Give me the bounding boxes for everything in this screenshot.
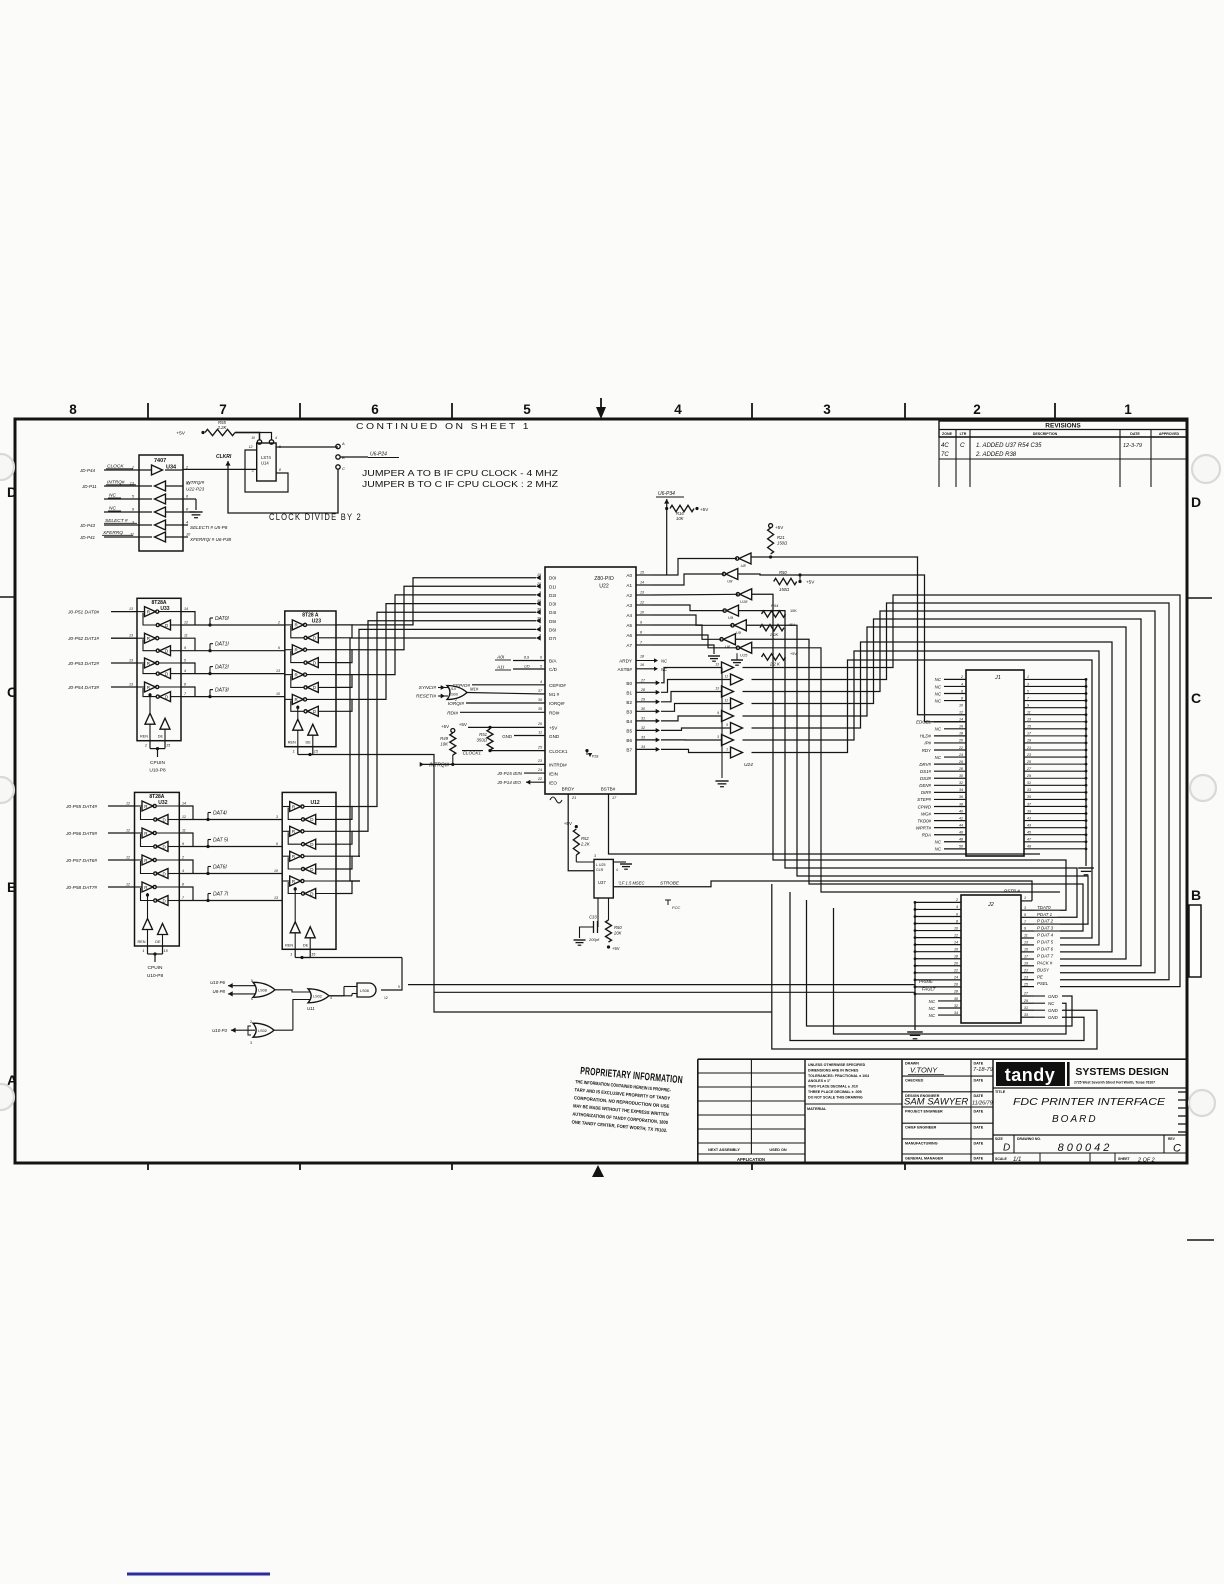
svg-text:8: 8 (640, 631, 642, 635)
svg-text:9: 9 (717, 711, 719, 715)
svg-text:27: 27 (640, 678, 646, 682)
svg-text:BUSY: BUSY (1037, 967, 1050, 972)
svg-text:P DAT 2: P DAT 2 (1037, 919, 1054, 924)
svg-text:DE: DE (303, 943, 309, 947)
zone marker bar right edge (1189, 905, 1201, 977)
svg-text:C: C (342, 466, 345, 471)
U33 channel 1 driver (145, 633, 156, 643)
svg-text:3: 3 (1024, 906, 1026, 910)
U23 channel 1 internal wires (285, 649, 293, 651)
jumper pad B (336, 455, 340, 459)
U32 channel 2 receiver (157, 869, 168, 879)
U23 channel 2 receiver (307, 682, 318, 692)
resistor R57 2.2K (760, 625, 784, 631)
svg-text:24: 24 (537, 768, 542, 772)
wire bundle below J2 loops (772, 884, 1097, 1049)
svg-text:CPUIN: CPUIN (150, 760, 165, 766)
svg-text:TDAT0: TDAT0 (1037, 905, 1051, 910)
svg-text:P DAT 7: P DAT 7 (1037, 954, 1054, 959)
svg-text:P DAT 5: P DAT 5 (1037, 940, 1054, 945)
wire bundle D0I-D7I risers (360, 578, 536, 625)
svg-text:GND: GND (1048, 1008, 1059, 1013)
svg-text:6: 6 (371, 402, 379, 417)
svg-text:39: 39 (537, 616, 541, 620)
svg-text:17: 17 (1024, 955, 1029, 959)
svg-text:U22-P23: U22-P23 (186, 487, 205, 492)
U33 enable drivers (145, 713, 155, 724)
svg-text:6: 6 (251, 997, 253, 1001)
svg-text:GND: GND (502, 734, 512, 739)
resistor R54 2.2K (762, 611, 786, 617)
svg-text:2.2 K: 2.2 K (769, 662, 780, 667)
svg-text:4: 4 (184, 669, 186, 673)
inverter U6 (5) (723, 634, 735, 645)
U12 enable drivers (290, 922, 300, 933)
ground inverter bank (731, 659, 743, 661)
svg-text:DAT 7I: DAT 7I (213, 892, 229, 898)
svg-text:5: 5 (184, 659, 186, 663)
svg-text:7: 7 (182, 896, 185, 900)
U33 channel 3 receiver (160, 692, 171, 702)
hole punches (0, 454, 14, 480)
svg-text:JD-P11: JD-P11 (81, 484, 97, 489)
jumper C return loop to CLKRI (228, 469, 338, 513)
svg-text:D: D (310, 891, 314, 896)
U12 channel 1 internal wires (282, 830, 290, 832)
svg-text:13: 13 (129, 659, 133, 663)
svg-text:U33: U33 (160, 606, 169, 612)
svg-text:8: 8 (956, 919, 958, 923)
tolerance notes block (901, 1059, 903, 1163)
svg-text:14: 14 (182, 802, 186, 806)
svg-text:29: 29 (1023, 999, 1028, 1003)
svg-text:CLOCK1: CLOCK1 (463, 751, 482, 756)
svg-text:ARDY: ARDY (619, 659, 632, 664)
svg-text:21: 21 (571, 796, 576, 800)
U32 channel 0 driver (142, 801, 153, 811)
svg-text:14: 14 (954, 940, 958, 944)
wire inverter U8b output to J1 pin 12 (738, 574, 966, 722)
svg-text:12: 12 (954, 933, 958, 937)
svg-text:IEIN: IEIN (549, 772, 558, 777)
svg-text:15: 15 (1027, 725, 1031, 729)
svg-text:JD-P41: JD-P41 (79, 535, 96, 540)
svg-text:45: 45 (1027, 831, 1031, 835)
svg-text:7: 7 (1027, 696, 1030, 700)
U12 channel 3 driver (290, 876, 301, 886)
wire U14 Q to jumper A (276, 446, 338, 448)
title block outline (697, 1059, 699, 1163)
svg-text:26: 26 (953, 983, 958, 987)
svg-text:4: 4 (330, 996, 332, 1000)
svg-text:NC: NC (935, 677, 942, 682)
svg-text:12: 12 (182, 815, 186, 819)
svg-text:J0-P15 IEIN: J0-P15 IEIN (496, 771, 522, 776)
svg-text:UNLESS OTHERWISE SPECIFIED: UNLESS OTHERWISE SPECIFIED (808, 1063, 866, 1067)
svg-text:9: 9 (1024, 927, 1026, 931)
svg-text:BOARD: BOARD (1052, 1114, 1098, 1125)
svg-text:SHEET: SHEET (1118, 1157, 1131, 1161)
svg-text:APPLICATION: APPLICATION (737, 1157, 765, 1162)
J1 ground bus (1085, 679, 1087, 866)
svg-text:U10-P8: U10-P8 (147, 973, 164, 979)
svg-text:C: C (1191, 690, 1201, 706)
svg-text:350Ω: 350Ω (477, 738, 488, 743)
svg-text:R49: R49 (440, 736, 448, 741)
svg-text:DAT6I: DAT6I (213, 865, 227, 871)
svg-text:9: 9 (132, 508, 135, 512)
U32 CPUIN enable net (153, 952, 156, 955)
wire R55 to jumper A (235, 433, 260, 441)
svg-text:1: 1 (1024, 896, 1026, 900)
svg-text:28: 28 (958, 767, 963, 771)
svg-text:D1I: D1I (549, 584, 556, 589)
wire spare riser (753, 648, 1061, 892)
svg-text:P28: P28 (592, 755, 598, 759)
svg-text:D: D (163, 817, 167, 822)
svg-text:U8-P8: U8-P8 (213, 989, 226, 994)
personnel signature block (970, 1059, 972, 1163)
svg-text:FCC: FCC (672, 905, 680, 910)
svg-text:2: 2 (277, 621, 280, 625)
svg-text:CLOCK1: CLOCK1 (549, 749, 568, 754)
svg-text:IEO: IEO (549, 781, 557, 786)
svg-text:APPROVED: APPROVED (1159, 432, 1180, 436)
U23 enable wire to right (308, 753, 311, 756)
svg-text:NC: NC (935, 691, 942, 696)
gate U10 LS00 M1 or (447, 686, 467, 700)
svg-text:NEXT ASSEMBLY: NEXT ASSEMBLY (708, 1148, 740, 1152)
svg-text:IORQI#: IORQI# (549, 701, 565, 706)
svg-text:9: 9 (184, 646, 186, 650)
svg-text:A0: A0 (626, 573, 632, 578)
U23 channel 2 internal wires (285, 674, 293, 676)
svg-text:REV: REV (1168, 1137, 1176, 1141)
zone boundary ticks left edge (0, 596, 15, 598)
svg-text:CLR: CLR (596, 868, 604, 872)
U12 channel 3 internal wires (282, 880, 290, 882)
svg-text:1: 1 (145, 744, 147, 748)
buffer U34C (155, 494, 166, 504)
buffer U34D (155, 507, 166, 517)
inverter U15 (6) (740, 642, 752, 653)
svg-text:32: 32 (641, 726, 645, 730)
svg-text:DATE: DATE (1130, 432, 1140, 436)
svg-text:U14: U14 (261, 461, 269, 466)
svg-text:M1#: M1# (470, 687, 479, 692)
svg-text:5: 5 (523, 402, 531, 417)
svg-text:R51: R51 (479, 732, 487, 737)
U32 channel 3 internal wires (135, 886, 143, 888)
svg-text:D: D (310, 867, 314, 872)
svg-text:3: 3 (132, 521, 135, 525)
svg-text:7-18-79: 7-18-79 (973, 1067, 994, 1073)
svg-text:34: 34 (954, 1011, 958, 1015)
svg-text:FAULT: FAULT (922, 987, 936, 992)
svg-text:2: 2 (960, 675, 963, 679)
svg-text:3: 3 (276, 815, 278, 819)
zone tick marks bottom edge (147, 1163, 149, 1170)
svg-text:+5V: +5V (612, 946, 620, 951)
wire jumper B to U6-P24 (340, 456, 368, 458)
svg-text:J0-P58 DAT7#: J0-P58 DAT7# (65, 885, 97, 891)
U23 channel 0 receiver (307, 633, 318, 643)
svg-text:24: 24 (953, 976, 958, 980)
U23 channel 0 internal wires (285, 624, 293, 626)
svg-text:C: C (960, 442, 965, 449)
svg-text:DAT0I: DAT0I (215, 616, 229, 622)
svg-text:14: 14 (184, 607, 188, 611)
svg-text:13: 13 (276, 669, 280, 673)
svg-text:NC: NC (935, 698, 942, 703)
svg-text:8: 8 (69, 402, 77, 417)
svg-text:8: 8 (186, 508, 189, 512)
IC 8T28 U33 (137, 598, 181, 740)
svg-text:D: D (1191, 494, 1201, 510)
svg-text:PE: PE (1037, 974, 1043, 979)
svg-text:+5V: +5V (775, 525, 784, 530)
svg-text:12: 12 (384, 996, 388, 1000)
gate output riser to U12 enable (381, 958, 402, 991)
svg-text:11/26/79: 11/26/79 (972, 1101, 993, 1107)
svg-text:C/D: C/D (549, 667, 558, 672)
svg-text:5: 5 (1027, 689, 1029, 693)
svg-text:REVISIONS: REVISIONS (1045, 423, 1081, 430)
svg-text:10: 10 (640, 611, 644, 615)
svg-text:NC: NC (929, 999, 936, 1004)
resistor R53 2.2K (762, 654, 786, 660)
svg-text:17: 17 (1027, 732, 1032, 736)
A0-A7 staircase to inverters (652, 559, 737, 576)
svg-text:23: 23 (1026, 753, 1031, 757)
svg-text:DRAWING NO.: DRAWING NO. (1017, 1137, 1041, 1141)
svg-text:U22: U22 (599, 584, 609, 590)
svg-text:5: 5 (132, 495, 135, 499)
buffer U24 (6) (722, 735, 734, 746)
svg-text:P DAT 6: P DAT 6 (1037, 947, 1054, 952)
svg-text:L U25: L U25 (596, 863, 605, 867)
svg-text:DO NOT SCALE THIS DRAWING: DO NOT SCALE THIS DRAWING (808, 1095, 863, 1099)
svg-text:22: 22 (953, 969, 958, 973)
U33 channel 3 driver (145, 682, 156, 692)
svg-text:INTRDI#: INTRDI# (549, 763, 567, 768)
wire BRDY to U37 (568, 794, 594, 871)
zone tick marks top edge (147, 403, 149, 419)
svg-text:U10-P3: U10-P3 (212, 1028, 227, 1033)
svg-text:34: 34 (959, 788, 963, 792)
svg-text:30: 30 (959, 774, 963, 778)
svg-text:1. ADDED U37 R54 C35: 1. ADDED U37 R54 C35 (976, 443, 1042, 449)
svg-text:D: D (7, 484, 17, 500)
svg-text:29: 29 (640, 697, 645, 701)
svg-text:36: 36 (959, 795, 963, 799)
svg-text:REN: REN (137, 940, 145, 944)
U32 channel 1 internal wires (135, 832, 143, 834)
svg-text:46: 46 (959, 831, 963, 835)
svg-text:P DAT 3: P DAT 3 (1037, 926, 1054, 931)
svg-text:21: 21 (1023, 968, 1028, 972)
buffer U24 (7) (731, 747, 743, 758)
svg-text:32: 32 (954, 1004, 958, 1008)
U14 feedback loop (245, 450, 288, 492)
svg-text:4: 4 (956, 905, 958, 909)
wire U23 enable run to lower right (310, 755, 772, 1013)
svg-text:J0-P56 DAT5#: J0-P56 DAT5# (65, 831, 97, 837)
svg-text:CPWD: CPWD (918, 804, 932, 809)
svg-text:10: 10 (954, 926, 958, 930)
svg-text:DATE: DATE (974, 1126, 984, 1130)
svg-text:49: 49 (1027, 845, 1031, 849)
svg-text:35: 35 (538, 707, 542, 711)
svg-text:2: 2 (250, 1020, 252, 1024)
svg-text:13: 13 (1027, 718, 1031, 722)
svg-text:A2: A2 (626, 593, 632, 598)
svg-text:U23: U23 (312, 619, 321, 625)
svg-text:4C: 4C (941, 443, 949, 449)
U12 channel 0 receiver (305, 814, 316, 824)
svg-text:2: 2 (973, 402, 981, 417)
capacitor C33 (597, 898, 599, 927)
svg-text:DATE: DATE (974, 1109, 984, 1113)
svg-text:4: 4 (182, 869, 184, 873)
svg-text:11: 11 (1024, 934, 1028, 938)
svg-text:U11: U11 (307, 1006, 315, 1011)
svg-text:9: 9 (640, 621, 642, 625)
svg-text:13: 13 (640, 591, 644, 595)
U23 channel 3 driver (292, 694, 303, 704)
zone boundary ticks right edge (1187, 597, 1212, 599)
svg-text:SYNCI#: SYNCI# (419, 685, 437, 691)
inverter U8 (0) (739, 553, 751, 564)
jumper pads above U14 (257, 440, 261, 444)
svg-text:SELECTI # U5-P8: SELECTI # U5-P8 (190, 525, 228, 530)
svg-text:1: 1 (290, 952, 292, 956)
svg-text:DESCRIPTION: DESCRIPTION (1033, 432, 1058, 436)
svg-text:THREE PLACE DECIMAL ± .005: THREE PLACE DECIMAL ± .005 (808, 1090, 862, 1094)
svg-text:ASTB#: ASTB# (617, 667, 632, 672)
svg-text:HLD#: HLD# (920, 734, 932, 739)
IC 8T28 U12 (282, 792, 336, 949)
svg-text:31: 31 (641, 716, 645, 720)
svg-text:DAT2I: DAT2I (215, 665, 229, 671)
U12 channel 0 driver (290, 802, 301, 812)
svg-text:J0-P57 DAT6#: J0-P57 DAT6# (65, 858, 97, 864)
svg-text:U9: U9 (736, 630, 742, 635)
svg-text:J0-P53 DAT2#: J0-P53 DAT2# (67, 661, 99, 667)
svg-text:13: 13 (129, 634, 133, 638)
svg-text:2 OF 2: 2 OF 2 (1137, 1158, 1155, 1164)
svg-text:D: D (163, 871, 167, 876)
svg-text:PSTB #: PSTB # (1004, 889, 1020, 894)
svg-text:13: 13 (715, 687, 719, 691)
svg-text:7: 7 (219, 402, 227, 417)
svg-text:38: 38 (537, 608, 541, 612)
svg-text:BRDY: BRDY (562, 787, 575, 792)
svg-text:A: A (341, 441, 345, 446)
svg-text:D7I: D7I (549, 636, 556, 641)
svg-text:20: 20 (536, 582, 541, 586)
svg-text:10K: 10K (790, 609, 797, 613)
resistor R52 2.2K (575, 825, 578, 828)
svg-text:13: 13 (715, 663, 719, 667)
A7 wire to ground (652, 645, 714, 654)
svg-text:JUMPER B TO C IF CPU: JUMPER B TO C IF CPU CLOCK : 2 MHZ (362, 480, 558, 489)
svg-text:Z80-PIO: Z80-PIO (594, 576, 614, 582)
svg-text:43: 43 (1027, 823, 1031, 827)
svg-text:CPUIN: CPUIN (148, 965, 163, 971)
svg-text:U8: U8 (727, 579, 733, 584)
svg-text:TWO PLACE DECIMAL ± .010: TWO PLACE DECIMAL ± .010 (808, 1085, 858, 1089)
svg-text:DE: DE (306, 741, 312, 745)
U33 CPUIN enable net (156, 747, 159, 750)
svg-text:10: 10 (251, 436, 255, 440)
svg-text:U18: U18 (740, 599, 748, 604)
svg-text:DIR#: DIR# (921, 790, 932, 795)
svg-text:U10: U10 (449, 687, 456, 691)
svg-text:2. ADDED R38: 2. ADDED R38 (975, 452, 1017, 458)
svg-text:15: 15 (311, 952, 316, 956)
svg-text:19: 19 (1027, 739, 1031, 743)
svg-text:JUMPER A TO B IF CPU: JUMPER A TO B IF CPU CLOCK - 4 MHZ (362, 469, 558, 478)
svg-text:C33: C33 (589, 915, 597, 920)
svg-text:U10-P6: U10-P6 (210, 980, 225, 985)
svg-text:8: 8 (182, 883, 184, 887)
svg-text:30: 30 (641, 707, 645, 711)
svg-text:A5: A5 (626, 623, 632, 628)
revisions table (939, 421, 1187, 437)
svg-text:6: 6 (961, 689, 963, 693)
svg-text:MATERIAL: MATERIAL (807, 1107, 827, 1111)
svg-text:CHECKED: CHECKED (905, 1079, 924, 1083)
svg-text:DATE: DATE (974, 1141, 984, 1145)
svg-text:V.TONY: V.TONY (910, 1066, 938, 1075)
U12 channel 1 receiver (305, 839, 316, 849)
buffer U34F (155, 532, 166, 542)
svg-text:LS02: LS02 (258, 1029, 267, 1033)
svg-text:23: 23 (537, 759, 542, 763)
svg-text:33: 33 (1024, 1013, 1028, 1017)
svg-text:19: 19 (1024, 962, 1028, 966)
svg-text:DEN#: DEN# (919, 783, 931, 788)
svg-text:35: 35 (1027, 795, 1031, 799)
IC Z80-PIO U22 (545, 567, 636, 794)
svg-text:B6: B6 (626, 738, 632, 743)
svg-text:36: 36 (538, 698, 542, 702)
svg-text:DAT 5I: DAT 5I (213, 838, 229, 844)
B0-B7 staircase to U24 inputs (661, 668, 721, 683)
svg-text:D: D (313, 709, 317, 714)
svg-text:TITLE: TITLE (995, 1090, 1006, 1094)
ground U37 clear (613, 861, 626, 863)
svg-text:CHIEF ENGINEER: CHIEF ENGINEER (905, 1126, 937, 1130)
J2 ground bus (914, 902, 916, 1030)
svg-text:LS02: LS02 (313, 995, 322, 999)
svg-text:2: 2 (538, 634, 541, 638)
svg-text:B: B (7, 879, 17, 895)
wire bundle inverters to J2 status pins (under J1) (752, 594, 1066, 910)
svg-text:NC: NC (929, 1006, 936, 1011)
IC 8T28 U23 (285, 611, 336, 747)
U12 channel 1 driver (290, 826, 301, 836)
U33 channel 2 receiver (160, 669, 171, 679)
svg-text:DIMENSIONS ARE IN INCHES: DIMENSIONS ARE IN INCHES (808, 1068, 859, 1072)
svg-text:A3: A3 (626, 603, 632, 608)
svg-text:12: 12 (184, 621, 188, 625)
svg-text:11: 11 (130, 533, 134, 537)
svg-text:4: 4 (616, 868, 618, 872)
IC 8T28 U32 (135, 792, 180, 946)
svg-text:R50: R50 (779, 570, 787, 575)
